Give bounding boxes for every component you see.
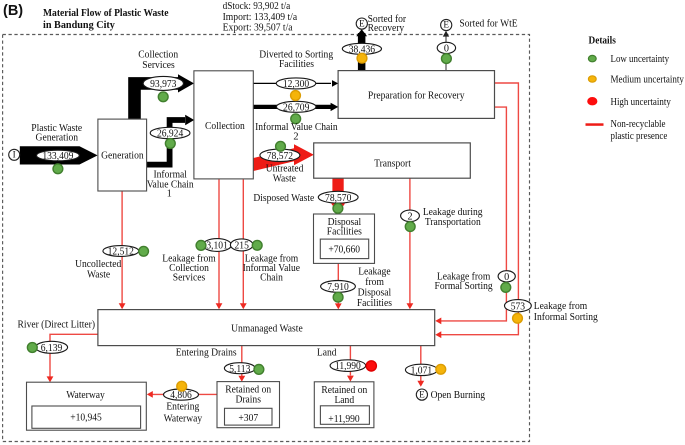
svg-text:Unmanaged Waste: Unmanaged Waste bbox=[231, 323, 303, 334]
svg-text:12,512: 12,512 bbox=[108, 247, 134, 258]
svg-text:78,570: 78,570 bbox=[325, 193, 351, 204]
svg-text:0: 0 bbox=[504, 272, 509, 283]
svg-text:0: 0 bbox=[444, 43, 449, 54]
svg-text:E: E bbox=[419, 389, 425, 399]
svg-text:I: I bbox=[13, 150, 16, 160]
svg-text:E: E bbox=[359, 18, 365, 28]
svg-text:Entering Drains: Entering Drains bbox=[176, 348, 237, 359]
svg-text:in Bandung City: in Bandung City bbox=[43, 19, 116, 31]
svg-text:Disposed Waste: Disposed Waste bbox=[253, 193, 314, 204]
svg-text:Non-recyclable: Non-recyclable bbox=[611, 119, 666, 130]
svg-text:Disposal: Disposal bbox=[358, 288, 392, 299]
svg-text:Waste: Waste bbox=[87, 270, 110, 281]
svg-text:Collection: Collection bbox=[138, 50, 179, 61]
svg-text:Drains: Drains bbox=[235, 394, 261, 405]
svg-text:78,572: 78,572 bbox=[267, 151, 293, 162]
svg-text:573: 573 bbox=[511, 301, 525, 312]
svg-text:93,973: 93,973 bbox=[150, 79, 176, 90]
svg-text:Low uncertainty: Low uncertainty bbox=[611, 54, 670, 65]
svg-text:6,139: 6,139 bbox=[41, 343, 63, 354]
svg-text:Entering: Entering bbox=[166, 402, 199, 413]
svg-text:4,806: 4,806 bbox=[170, 390, 192, 401]
svg-text:Details: Details bbox=[589, 36, 616, 47]
svg-text:Facilities: Facilities bbox=[279, 59, 314, 70]
svg-text:3,101: 3,101 bbox=[206, 241, 228, 252]
svg-text:11,990: 11,990 bbox=[335, 361, 361, 372]
svg-text:(B): (B) bbox=[3, 3, 23, 19]
svg-text:26,924: 26,924 bbox=[157, 129, 183, 140]
svg-text:Generation: Generation bbox=[101, 150, 144, 161]
svg-text:+11,990: +11,990 bbox=[328, 414, 359, 425]
svg-text:Land: Land bbox=[334, 395, 354, 406]
svg-text:Facilities: Facilities bbox=[327, 226, 362, 237]
svg-text:Export: 39,507 t/a: Export: 39,507 t/a bbox=[223, 21, 293, 33]
svg-text:+10,945: +10,945 bbox=[70, 413, 102, 424]
svg-text:Services: Services bbox=[142, 60, 174, 71]
svg-text:Material Flow of Plastic Waste: Material Flow of Plastic Waste bbox=[43, 7, 169, 19]
svg-text:Medium uncertainty: Medium uncertainty bbox=[611, 75, 685, 86]
svg-text:Uncollected: Uncollected bbox=[75, 259, 122, 270]
svg-text:River (Direct Litter): River (Direct Litter) bbox=[18, 320, 96, 331]
svg-text:7,910: 7,910 bbox=[327, 282, 349, 293]
svg-text:Preparation for Recovery: Preparation for Recovery bbox=[368, 90, 465, 101]
svg-text:plastic presence: plastic presence bbox=[611, 131, 668, 142]
svg-text:Collection: Collection bbox=[205, 121, 246, 132]
svg-text:from: from bbox=[365, 277, 384, 288]
svg-text:2: 2 bbox=[407, 211, 412, 222]
svg-text:Open Burning: Open Burning bbox=[431, 390, 486, 401]
svg-text:Land: Land bbox=[317, 348, 337, 359]
svg-text:Recovery: Recovery bbox=[368, 23, 405, 34]
svg-text:Waterway: Waterway bbox=[164, 413, 203, 424]
svg-text:E: E bbox=[443, 20, 449, 30]
svg-text:26,709: 26,709 bbox=[283, 102, 309, 113]
svg-text:Leakage: Leakage bbox=[358, 267, 391, 278]
svg-text:1: 1 bbox=[167, 189, 172, 200]
svg-text:Transportation: Transportation bbox=[425, 217, 482, 228]
svg-text:Informal Sorting: Informal Sorting bbox=[534, 312, 598, 323]
svg-text:Leakage from: Leakage from bbox=[534, 301, 587, 312]
svg-text:+307: +307 bbox=[238, 413, 258, 424]
svg-text:Sorted for WtE: Sorted for WtE bbox=[459, 19, 517, 30]
svg-text:High uncertainty: High uncertainty bbox=[611, 97, 672, 108]
svg-text:Waste: Waste bbox=[273, 174, 296, 185]
svg-text:Services: Services bbox=[173, 272, 205, 283]
svg-text:2: 2 bbox=[293, 132, 298, 143]
svg-text:Waterway: Waterway bbox=[66, 390, 105, 401]
svg-text:Facilities: Facilities bbox=[357, 298, 392, 309]
svg-text:133,409: 133,409 bbox=[42, 151, 73, 162]
svg-text:5,113: 5,113 bbox=[229, 364, 250, 375]
svg-text:+70,660: +70,660 bbox=[328, 245, 360, 256]
svg-text:1,071: 1,071 bbox=[411, 365, 433, 376]
svg-text:Transport: Transport bbox=[374, 158, 411, 169]
svg-text:Chain: Chain bbox=[260, 272, 284, 283]
svg-text:215: 215 bbox=[235, 240, 249, 251]
svg-text:Generation: Generation bbox=[36, 133, 79, 144]
svg-text:12,300: 12,300 bbox=[283, 79, 309, 90]
svg-text:Formal Sorting: Formal Sorting bbox=[435, 281, 493, 292]
